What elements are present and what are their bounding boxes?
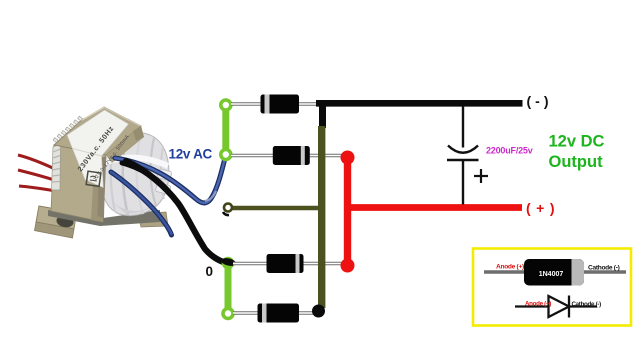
svg-text:12v AC: 12v AC bbox=[169, 147, 213, 162]
svg-text:(+): (+) bbox=[526, 200, 560, 216]
svg-text:(-): (-) bbox=[527, 93, 553, 109]
svg-text:Output: Output bbox=[549, 153, 604, 171]
svg-text:Anode (+): Anode (+) bbox=[525, 300, 551, 307]
svg-text:1N4007: 1N4007 bbox=[539, 271, 564, 278]
svg-text:Anode (+): Anode (+) bbox=[496, 264, 524, 271]
svg-text:12v DC: 12v DC bbox=[549, 133, 605, 151]
svg-text:2200uF/25v: 2200uF/25v bbox=[486, 145, 533, 155]
svg-text:Cathode (-): Cathode (-) bbox=[588, 264, 620, 271]
svg-text:0: 0 bbox=[206, 264, 214, 279]
svg-text:Cathode (-): Cathode (-) bbox=[572, 301, 602, 308]
